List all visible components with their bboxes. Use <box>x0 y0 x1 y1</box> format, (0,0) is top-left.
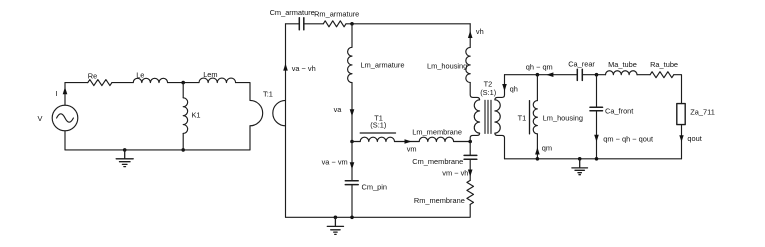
node qm bottom <box>536 157 540 161</box>
node Ca_front top <box>595 73 599 77</box>
wire top left <box>65 82 88 84</box>
svg-text:Cm_membrane: Cm_membrane <box>412 157 463 166</box>
node ground center <box>334 216 338 220</box>
wire Le to Lem <box>168 82 199 84</box>
voltage source V <box>52 105 78 131</box>
wire Ca_front top lead <box>596 75 598 107</box>
node center bottom <box>350 216 354 220</box>
arrow qh <box>502 84 507 91</box>
svg-text:Lm_armature: Lm_armature <box>361 60 405 69</box>
svg-text:vm − vh: vm − vh <box>442 168 468 177</box>
inductor Lm_armature <box>348 47 352 82</box>
svg-text:Za_711: Za_711 <box>690 107 715 116</box>
wire T1 right branch top lead <box>536 75 538 101</box>
capacitor Cm_pin <box>345 181 358 185</box>
svg-text:(S:1): (S:1) <box>370 120 386 129</box>
inductor Lm_housing center <box>466 47 470 82</box>
svg-text:T:1: T:1 <box>263 89 273 98</box>
wire source top lead <box>64 83 66 106</box>
svg-text:vh: vh <box>476 27 484 36</box>
wire T2 right winding top lead <box>495 75 505 100</box>
wire center vertical upper <box>351 24 353 48</box>
wire Cm_armature to Rm_armature <box>304 23 324 25</box>
svg-text:va − vm: va − vm <box>322 158 348 167</box>
capacitor Cm_armature <box>299 18 304 30</box>
svg-text:qm: qm <box>542 144 552 153</box>
wire Lm_housing right bottom lead <box>536 134 538 159</box>
wire T2 left winding bottom lead <box>470 133 479 141</box>
arrow vm-vh <box>468 170 473 177</box>
inductor Lm_housing right <box>533 101 537 134</box>
wire Lm_housing to T2 <box>470 83 479 100</box>
arrow va-vm <box>350 162 355 169</box>
svg-text:Ra_tube: Ra_tube <box>650 60 678 69</box>
ground left <box>116 150 133 167</box>
svg-text:qout: qout <box>687 134 701 143</box>
wire Ma_tube to Ra_tube <box>637 74 650 76</box>
transformer T1 core bar <box>360 132 395 134</box>
node bottom of K1 <box>181 148 185 152</box>
resistor Rm_membrane <box>467 180 474 204</box>
node ground right <box>578 157 582 161</box>
arrow qout <box>679 135 683 142</box>
svg-text:V: V <box>38 114 43 123</box>
wire right section top <box>505 74 578 76</box>
impedance Za_711 <box>677 104 685 125</box>
transformer T2 left winding <box>474 100 479 133</box>
wire membrane node to Cm_membrane <box>469 142 471 156</box>
svg-text:va − vh: va − vh <box>292 64 316 73</box>
capacitor Ca_rear <box>577 69 582 80</box>
node Ca_front bottom <box>595 157 599 161</box>
svg-text:Rm_membrane: Rm_membrane <box>414 196 465 205</box>
arrow va-vh <box>283 63 288 70</box>
svg-text:Ma_tube: Ma_tube <box>608 60 637 69</box>
node qh-qm junction <box>536 73 540 77</box>
svg-text:Re: Re <box>88 71 97 80</box>
svg-text:Rm_armature: Rm_armature <box>314 10 359 19</box>
svg-text:Ca_front: Ca_front <box>605 106 633 115</box>
svg-text:Cm_armature: Cm_armature <box>270 8 315 17</box>
wire T1 node down to Cm_pin <box>351 142 353 181</box>
svg-text:Cm_pin: Cm_pin <box>362 182 387 191</box>
arrow qm-qh-qout <box>594 135 599 142</box>
wire center-left vertical <box>285 24 287 218</box>
wire Ca_rear to Ma_tube <box>582 74 605 76</box>
inductor K1 <box>183 83 187 150</box>
node center T1 junction <box>350 140 354 144</box>
capacitor Ca_front <box>590 107 603 111</box>
wire Lem to corner <box>236 83 250 101</box>
svg-text:Lm_housing: Lm_housing <box>543 113 583 122</box>
wire T1 node to coil <box>352 141 360 143</box>
svg-text:qh − qm: qh − qm <box>526 62 553 71</box>
svg-text:T1: T1 <box>518 113 527 122</box>
node top of K1 <box>181 81 185 85</box>
current arrow I <box>63 87 68 94</box>
resistor Rm_armature <box>323 21 346 27</box>
wire right section bottom <box>505 158 682 160</box>
svg-text:qm − qh − qout: qm − qh − qout <box>603 135 653 144</box>
wire Cm_membrane to Rm_membrane <box>469 159 471 180</box>
wire Ca_front bottom lead <box>596 111 598 159</box>
transformer T2 core <box>485 100 491 133</box>
svg-text:K1: K1 <box>192 110 201 119</box>
wire T:1 primary bottom lead <box>249 126 251 150</box>
svg-text:Lem: Lem <box>203 70 217 79</box>
inductor Ma_tube <box>606 71 638 75</box>
resistor Ra_tube <box>650 72 674 78</box>
wire right column top <box>469 24 471 48</box>
arrow vm <box>405 139 412 144</box>
inductor Lm_membrane <box>419 137 453 141</box>
wire Re to Le <box>112 82 133 84</box>
wire Lm_armature to T1 node <box>351 83 353 142</box>
node membrane junction <box>468 140 472 144</box>
svg-text:Ca_rear: Ca_rear <box>568 59 595 68</box>
wire T2 right winding bottom lead <box>495 133 505 159</box>
inductor Lem <box>199 78 236 83</box>
node ground left <box>123 148 127 152</box>
wire Ra_tube to right corner <box>674 75 682 104</box>
capacitor Cm_membrane <box>464 155 477 159</box>
wire top to Cm_armature <box>286 23 300 25</box>
ground right <box>572 159 588 175</box>
svg-text:vm: vm <box>407 144 417 153</box>
wire Lm_membrane to right column <box>454 141 471 143</box>
wire Cm_pin to bottom <box>351 185 353 218</box>
inductor Le <box>133 78 167 82</box>
transformer T:1 <box>250 100 286 125</box>
ground center <box>327 217 343 234</box>
svg-text:Lm_membrane: Lm_membrane <box>412 128 462 137</box>
arrow qh-qm <box>546 72 553 77</box>
svg-text:Lm_housing: Lm_housing <box>427 62 467 71</box>
wire Rm_armature to right column <box>346 23 470 25</box>
wire bottom left loop <box>65 149 250 151</box>
transformer T1 right core bar <box>529 101 531 134</box>
svg-text:va: va <box>334 105 343 114</box>
wire source bottom lead <box>64 131 66 150</box>
wire Za_711 to bottom <box>681 125 683 159</box>
svg-text:I: I <box>56 89 58 98</box>
arrow va <box>350 109 355 116</box>
svg-text:qh: qh <box>510 84 518 93</box>
transformer T2 right winding <box>495 100 500 133</box>
node top center <box>350 22 354 26</box>
resistor Re <box>88 80 112 86</box>
wire Rm_membrane to bottom <box>286 204 471 217</box>
wire T1 to Lm_membrane <box>395 141 420 143</box>
svg-text:(S:1): (S:1) <box>480 88 496 97</box>
inductor T1 winding <box>360 137 394 141</box>
arrow qm <box>535 147 540 154</box>
arrow vh <box>468 31 473 38</box>
svg-text:Le: Le <box>136 71 144 80</box>
